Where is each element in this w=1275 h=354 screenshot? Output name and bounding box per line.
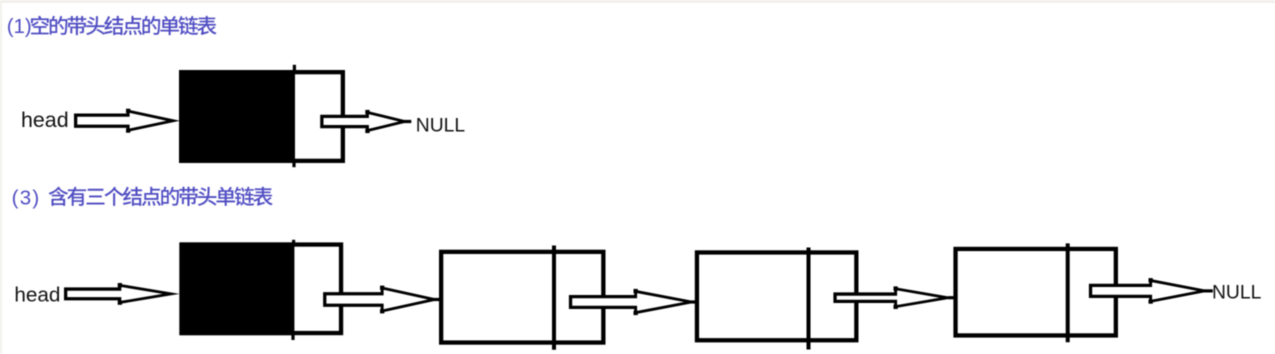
svg-text:(3): (3) — [12, 187, 40, 210]
svg-text:NULL: NULL — [416, 116, 466, 137]
svg-text:head: head — [21, 108, 69, 132]
svg-text:(1): (1) — [7, 15, 32, 38]
svg-text:head: head — [14, 283, 60, 306]
svg-text:NULL: NULL — [1212, 283, 1262, 304]
